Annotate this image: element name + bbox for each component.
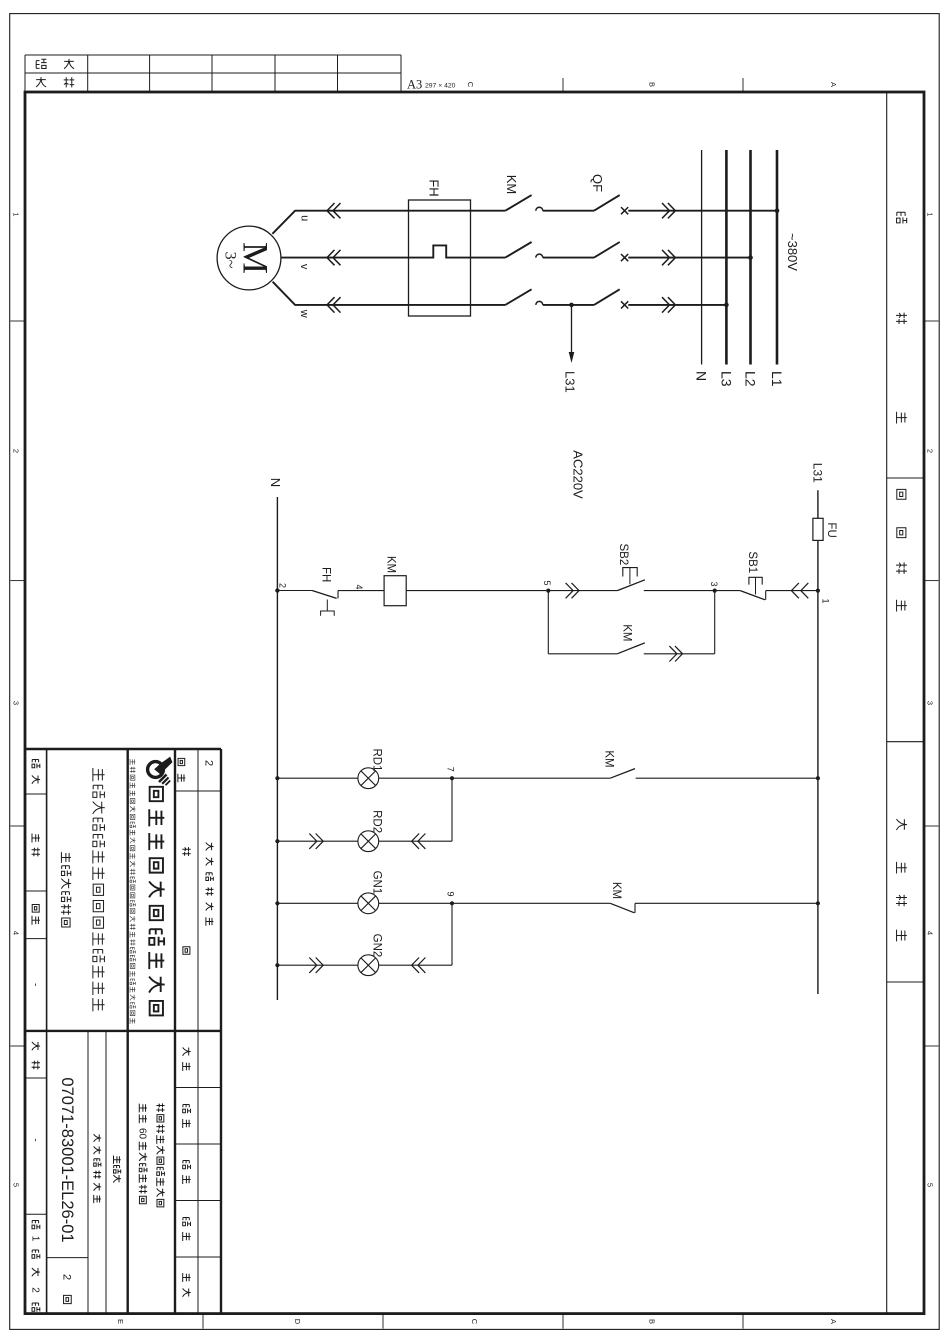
svg-text:2: 2	[61, 1274, 73, 1280]
thermal contact FH (NC)	[337, 591, 339, 599]
svg-text:60: 60	[137, 1128, 148, 1140]
wire chevrons	[668, 297, 676, 312]
node 1	[816, 589, 820, 593]
svg-text:2: 2	[12, 449, 21, 453]
svg-text:D: D	[293, 1319, 302, 1325]
KM self-hold branch wires	[714, 591, 716, 654]
text gong	[32, 1268, 40, 1276]
bus N	[701, 150, 703, 365]
svg-text:A: A	[829, 1319, 838, 1324]
text hebi meidian	[156, 1103, 164, 1112]
contactor KM fixed contact arc	[536, 301, 543, 304]
svg-text:5: 5	[12, 1183, 21, 1187]
header strip cell dividers	[887, 477, 924, 479]
svg-text:5: 5	[926, 1183, 935, 1187]
text xiangxi gongcheng sheji 2	[94, 1134, 102, 1142]
wire QF to KM contact	[543, 210, 594, 212]
junction dot bus @x=210.7	[775, 208, 780, 213]
bus L1	[776, 150, 779, 365]
svg-text:FU: FU	[825, 522, 837, 537]
rail L31	[817, 490, 819, 994]
lead chevrons	[333, 250, 341, 265]
wire FH to node 2	[277, 590, 312, 592]
contactor KM blade	[505, 195, 531, 211]
KM contact NO (signal)	[610, 769, 635, 779]
wire KM to FH box	[471, 257, 506, 259]
svg-text:2: 2	[29, 1287, 40, 1293]
text shuo ming	[182, 847, 190, 856]
svg-text:KM: KM	[610, 882, 622, 899]
breaker QF cross contact	[621, 207, 628, 214]
lead chevrons	[333, 203, 341, 218]
text title2	[61, 852, 70, 863]
text xin hao hui lu	[896, 819, 907, 830]
bus L3	[725, 150, 728, 365]
svg-text:KM: KM	[385, 556, 397, 573]
svg-text:9: 9	[446, 891, 456, 896]
node 5	[546, 589, 550, 593]
wire drop from bus	[628, 304, 726, 306]
arrow to L31	[569, 352, 575, 363]
svg-text:KM: KM	[602, 750, 614, 767]
signal rung 7 (RD1)	[816, 776, 820, 780]
lamp GN2	[358, 955, 379, 976]
svg-text:3: 3	[709, 581, 719, 586]
svg-text:-: -	[29, 983, 40, 986]
company logo stripes	[159, 775, 167, 783]
wire SB1 to node 3	[715, 590, 741, 592]
text donglizhan	[114, 1156, 121, 1164]
svg-text:w: w	[298, 309, 310, 318]
svg-text:B: B	[648, 82, 657, 87]
wire node3 to SB2	[644, 590, 715, 592]
svg-text:L31: L31	[810, 463, 824, 483]
lamp RD2	[358, 831, 379, 852]
rung chevrons above node 5	[572, 583, 580, 598]
wire chevrons	[668, 250, 676, 265]
node 3	[713, 589, 717, 593]
svg-text:QF: QF	[590, 174, 605, 192]
svg-text:2: 2	[203, 760, 215, 766]
text zhuanye2	[36, 59, 46, 68]
breaker QF blade	[594, 242, 620, 258]
lead chevrons	[333, 297, 341, 312]
svg-text:A: A	[829, 82, 838, 87]
contactor KM blade	[505, 289, 531, 305]
KM aux contact blade	[617, 643, 645, 654]
svg-text:FH: FH	[319, 567, 331, 582]
svg-text:FH: FH	[427, 179, 442, 196]
text title1	[93, 768, 105, 781]
bottom strip dividers	[25, 793, 47, 795]
text wuhuan keji gufen youxian gongsi	[150, 787, 163, 801]
svg-text:-: -	[29, 1138, 40, 1141]
text she ji	[183, 1047, 191, 1055]
rail N	[276, 497, 278, 1000]
text zhuanye	[32, 760, 40, 769]
KM contact NC (signal)	[634, 903, 636, 913]
wire node1 to SB1	[766, 590, 818, 592]
pushbutton SB1 (NC stop)	[765, 591, 767, 600]
wire node5 to coil	[406, 590, 548, 592]
contactor KM blade	[505, 242, 531, 258]
motor lead V	[281, 257, 409, 259]
svg-text:07071-83001-EL26-01: 07071-83001-EL26-01	[58, 1077, 76, 1242]
motor lead W	[273, 282, 409, 305]
zone column ticks bottom margin	[10, 320, 25, 322]
svg-text:KM: KM	[620, 624, 632, 641]
branch chevrons	[675, 646, 683, 661]
wire coil to FH contact	[338, 590, 384, 592]
svg-text:L2: L2	[743, 371, 759, 387]
svg-text:4: 4	[926, 931, 935, 935]
wire drop from bus	[628, 210, 777, 212]
lamp RD1	[358, 768, 379, 789]
wire KM to FH box	[471, 304, 506, 306]
right rows lines	[105, 1031, 107, 1314]
svg-text:C: C	[470, 1319, 479, 1325]
text ban	[64, 1295, 72, 1303]
svg-text:4: 4	[12, 931, 21, 935]
text shen ding	[183, 1218, 191, 1227]
svg-text:5: 5	[542, 580, 552, 585]
bus L2	[749, 150, 752, 365]
breaker QF blade	[594, 289, 620, 305]
text di	[32, 1221, 40, 1230]
text quyu	[32, 905, 39, 913]
svg-text:SB2: SB2	[617, 544, 629, 566]
signature table	[25, 54, 401, 56]
text shen he	[183, 1161, 191, 1170]
svg-text:GN1: GN1	[371, 871, 383, 895]
svg-text:3: 3	[12, 701, 21, 705]
svg-text:L1: L1	[769, 371, 785, 387]
node L31 tap junction	[569, 303, 574, 308]
svg-text:3~: 3~	[222, 252, 239, 269]
node 2	[275, 588, 279, 592]
svg-text:4: 4	[354, 584, 364, 589]
text xiangxi gongcheng sheji	[206, 843, 214, 851]
text zhu hui lu	[897, 212, 907, 223]
zone column ticks top margin	[924, 320, 939, 322]
contactor coil KM	[384, 576, 406, 606]
breaker QF blade	[594, 195, 620, 211]
text wandun jiachun xiangmu	[139, 1142, 147, 1151]
rung chevrons below node 1	[801, 583, 809, 598]
zone row ticks left margin	[742, 78, 744, 92]
svg-text:u: u	[299, 215, 311, 221]
motor M circle	[217, 226, 281, 290]
text qianzi	[36, 77, 46, 87]
svg-text:E: E	[116, 1319, 125, 1324]
svg-text:C: C	[466, 82, 475, 88]
wire through FH with heater jog	[409, 245, 471, 257]
thermal relay FH box	[409, 200, 471, 316]
wire chevrons	[668, 203, 676, 218]
svg-text:RD1: RD1	[371, 748, 383, 771]
branch GN2	[451, 903, 453, 965]
revision table lines	[197, 749, 199, 1314]
svg-text:N: N	[268, 478, 283, 487]
motor lead U	[272, 211, 408, 234]
svg-text:1: 1	[926, 212, 935, 216]
svg-text:GN2: GN2	[371, 934, 383, 958]
company logo flag	[154, 757, 172, 775]
svg-text:N: N	[694, 371, 710, 381]
pushbutton SB2 (NO start)	[617, 580, 645, 591]
wire through FH box	[409, 304, 471, 306]
svg-text:3: 3	[926, 701, 935, 705]
wire KM to FH box	[471, 210, 506, 212]
text ban ci	[178, 758, 185, 765]
wire drop from bus	[628, 257, 750, 259]
svg-text:2: 2	[278, 583, 288, 588]
title block outline	[25, 748, 221, 750]
contactor KM fixed contact arc	[536, 254, 543, 257]
svg-text:L31: L31	[563, 371, 578, 393]
svg-text:~380V: ~380V	[785, 233, 800, 271]
node 9	[450, 901, 454, 905]
wire through FH box	[409, 210, 471, 212]
text zhang	[32, 1250, 40, 1259]
wire QF to KM contact	[543, 304, 594, 306]
svg-text:SB1: SB1	[746, 551, 758, 573]
top header strip line	[886, 92, 888, 1314]
svg-text:1: 1	[821, 598, 831, 603]
text ri qi	[183, 1273, 191, 1282]
svg-text:KM: KM	[504, 175, 519, 195]
svg-text:AC220V: AC220V	[571, 450, 586, 499]
text kong zhi hui lu	[897, 489, 906, 499]
wire SB2 to node 5	[548, 590, 617, 592]
contactor KM fixed contact arc	[536, 207, 543, 211]
fuse FU	[813, 518, 823, 540]
text zhang2	[32, 1303, 40, 1312]
svg-text:RD2: RD2	[371, 810, 383, 833]
text nianchan	[139, 1104, 147, 1113]
svg-text:2: 2	[926, 449, 935, 453]
text dianqi	[32, 834, 40, 843]
svg-text:7: 7	[446, 767, 456, 772]
breaker QF cross contact	[621, 254, 628, 261]
node 2 rail dot	[275, 588, 279, 592]
lamp GN1	[358, 893, 379, 914]
branch RD2	[451, 778, 453, 841]
wire L31 tap	[571, 305, 573, 353]
junction dot bus @x=304.9	[724, 303, 729, 308]
company logo ring	[148, 762, 164, 778]
zone row ticks right margin	[742, 1314, 744, 1329]
svg-text:A3: A3	[407, 78, 422, 92]
breaker QF cross contact	[621, 301, 628, 308]
svg-text:297 × 420: 297 × 420	[425, 83, 456, 90]
svg-text:1: 1	[12, 212, 21, 216]
text bili	[32, 1042, 40, 1050]
node 7	[450, 776, 454, 780]
svg-text:M: M	[236, 242, 276, 274]
signal rung 9 (GN1)	[816, 901, 820, 905]
text jiao he	[183, 1105, 191, 1114]
svg-text:L3: L3	[718, 371, 734, 387]
svg-text:v: v	[298, 264, 310, 270]
svg-text:B: B	[648, 1319, 657, 1324]
junction dot bus @x=257.6	[748, 255, 753, 260]
text disclaimer	[130, 759, 135, 765]
svg-text:1: 1	[29, 1236, 40, 1242]
wire QF to KM contact	[543, 257, 594, 259]
